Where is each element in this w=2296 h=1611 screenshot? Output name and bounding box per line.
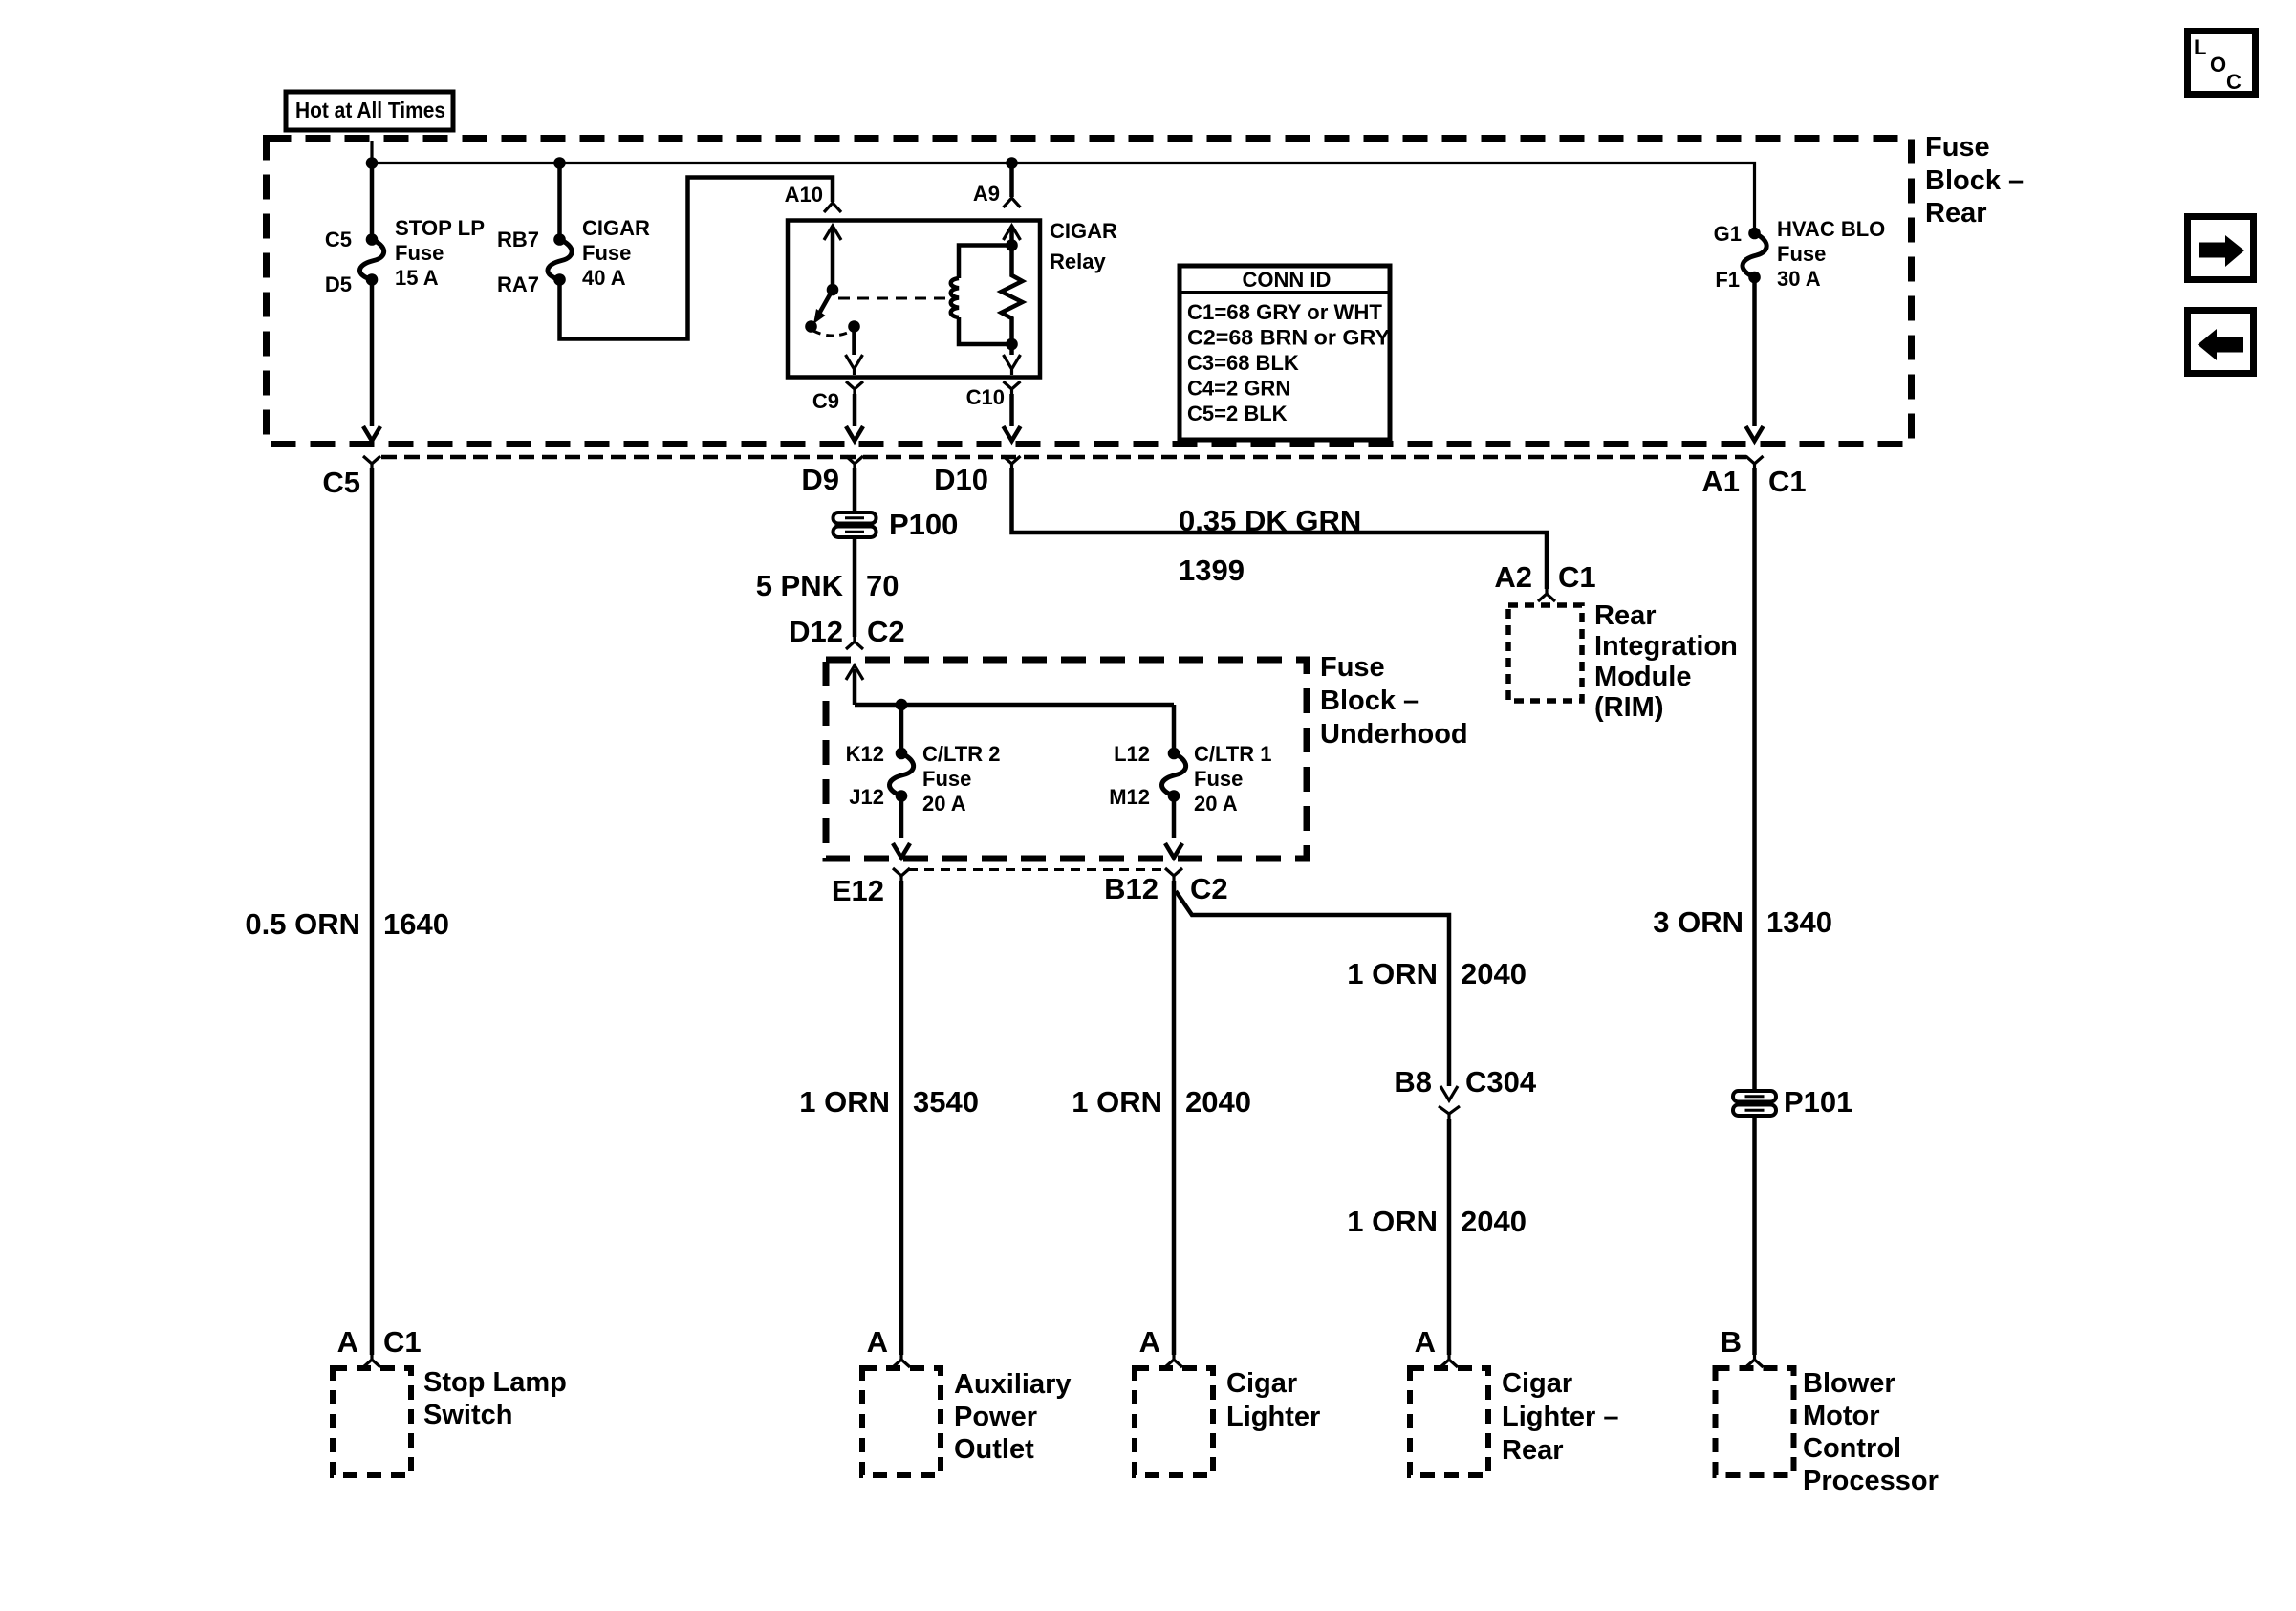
relay switch contact right	[848, 320, 860, 333]
connector C5 at fuse block rear output	[363, 456, 380, 468]
svg-text:Underhood: Underhood	[1320, 719, 1468, 750]
relay CIGAR Relay box	[788, 221, 1040, 378]
svg-text:C1: C1	[1558, 560, 1596, 594]
relay coil winding	[959, 246, 1012, 279]
relay output wire to C10	[1009, 344, 1014, 355]
svg-text:2040: 2040	[1461, 1205, 1527, 1238]
fuse HVAC BLO 30A	[1714, 217, 1886, 441]
svg-text:C10: C10	[966, 385, 1005, 409]
svg-text:C5: C5	[322, 466, 360, 499]
svg-text:1 ORN: 1 ORN	[799, 1085, 890, 1119]
svg-text:C5=2 BLK: C5=2 BLK	[1187, 402, 1288, 425]
svg-text:P100: P100	[889, 508, 958, 541]
svg-text:Lighter –: Lighter –	[1502, 1402, 1618, 1432]
svg-text:Stop Lamp: Stop Lamp	[423, 1367, 567, 1398]
wire: 1 ORN 3540 to auxiliary power outlet	[899, 881, 904, 1355]
node: junction at C/LTR 2 fuse	[896, 699, 908, 711]
svg-text:Fuse: Fuse	[1777, 242, 1826, 266]
svg-text:5 PNK: 5 PNK	[756, 569, 844, 602]
connector E12	[893, 868, 910, 881]
svg-text:1399: 1399	[1179, 554, 1245, 587]
svg-text:A2: A2	[1494, 560, 1532, 594]
svg-text:RA7: RA7	[497, 272, 539, 296]
svg-text:Control: Control	[1803, 1433, 1901, 1464]
svg-text:RB7: RB7	[497, 228, 539, 251]
svg-text:K12: K12	[846, 742, 884, 766]
component: Cigar Lighter - Rear	[1410, 1325, 1618, 1475]
svg-text:Lighter: Lighter	[1226, 1402, 1320, 1432]
svg-text:C1=68 GRY or WHT: C1=68 GRY or WHT	[1187, 300, 1383, 324]
svg-text:2040: 2040	[1461, 957, 1527, 991]
svg-text:40 A: 40 A	[582, 266, 626, 290]
svg-text:C/LTR 2: C/LTR 2	[922, 742, 1000, 766]
svg-text:Cigar: Cigar	[1226, 1368, 1297, 1399]
relay actuation dashed link	[838, 297, 951, 300]
wire: cigar fuse to relay terminal A10	[560, 178, 834, 339]
svg-text:1 ORN: 1 ORN	[1072, 1085, 1162, 1119]
CONN ID table	[1180, 266, 1390, 440]
fuse C/LTR 2 20A	[846, 705, 1001, 858]
svg-text:C2=68 BRN or GRY: C2=68 BRN or GRY	[1187, 326, 1390, 350]
svg-text:Switch: Switch	[423, 1400, 512, 1430]
svg-text:F1: F1	[1715, 268, 1740, 292]
svg-text:C5: C5	[325, 228, 352, 251]
label: Fuse Block - Underhood	[1320, 652, 1468, 750]
svg-text:30 A: 30 A	[1777, 267, 1821, 291]
svg-text:3 ORN: 3 ORN	[1653, 905, 1744, 939]
svg-text:Processor: Processor	[1803, 1466, 1939, 1496]
interface dashed line below fuse block rear	[381, 455, 1746, 460]
fuse block rear dashed border	[267, 139, 1912, 445]
svg-text:B12: B12	[1104, 872, 1159, 905]
relay switch pivot	[827, 284, 839, 296]
wire C10 to fuse block edge	[1009, 394, 1014, 426]
svg-text:A9: A9	[973, 182, 1000, 206]
connector A2 / C1 male terminal	[1538, 589, 1555, 601]
svg-text:Power: Power	[954, 1402, 1037, 1432]
svg-text:70: 70	[866, 569, 899, 602]
svg-text:Relay: Relay	[1050, 250, 1106, 273]
svg-text:3540: 3540	[913, 1085, 979, 1119]
svg-text:Fuse: Fuse	[395, 241, 444, 265]
label: Hot at All Times box	[286, 92, 453, 130]
svg-text:C1: C1	[1768, 465, 1807, 498]
svg-text:Fuse: Fuse	[922, 767, 971, 791]
relay internal: A9 pin entering	[1004, 226, 1021, 240]
svg-text:C1: C1	[383, 1325, 422, 1359]
svg-text:M12: M12	[1109, 785, 1150, 809]
component: Cigar Lighter	[1135, 1325, 1320, 1475]
svg-text:O: O	[2210, 53, 2226, 76]
svg-text:1640: 1640	[383, 907, 449, 941]
svg-text:C9: C9	[812, 389, 839, 413]
wire C9 to fuse block edge	[853, 394, 857, 426]
svg-text:STOP LP: STOP LP	[395, 216, 485, 240]
svg-text:Block –: Block –	[1925, 165, 2024, 196]
svg-text:Rear: Rear	[1502, 1435, 1564, 1466]
connector C9 female terminal below relay	[846, 381, 863, 394]
svg-text:C304: C304	[1465, 1065, 1537, 1099]
svg-text:C: C	[2226, 70, 2242, 94]
svg-text:D10: D10	[934, 463, 988, 496]
component: Blower Motor Control Processor	[1716, 1325, 1939, 1496]
relay output wire to C9	[852, 327, 856, 356]
relay switch dashed throw arc	[813, 331, 852, 336]
svg-text:D12: D12	[789, 615, 843, 648]
svg-text:20 A: 20 A	[922, 792, 966, 816]
svg-text:(RIM): (RIM)	[1594, 692, 1663, 723]
grommet P101	[1733, 1085, 1852, 1119]
svg-text:Cigar: Cigar	[1502, 1368, 1572, 1399]
fuse CIGAR 40A	[497, 163, 650, 297]
svg-text:Hot at All Times: Hot at All Times	[295, 98, 445, 122]
svg-text:Fuse: Fuse	[1925, 132, 1990, 163]
svg-text:1 ORN: 1 ORN	[1347, 957, 1438, 991]
node: coil branch top	[1006, 239, 1018, 251]
svg-text:1 ORN: 1 ORN	[1347, 1205, 1438, 1238]
rear integration module dashed box	[1508, 605, 1582, 701]
node: coil branch bottom	[1006, 338, 1018, 351]
svg-text:D5: D5	[325, 272, 352, 296]
grommet P100	[834, 508, 959, 541]
svg-text:15 A: 15 A	[395, 266, 439, 290]
wire: 3 ORN 1340 to blower motor control processor	[1752, 468, 1757, 1355]
icon: LOC locator box	[2188, 32, 2256, 95]
interface dashed line below fuse block underhood	[908, 868, 1164, 871]
relay resistor	[1002, 246, 1023, 345]
wire: 5 PNK 70 to underhood fuse block	[853, 537, 857, 637]
connector D9	[846, 456, 863, 468]
svg-text:0.5 ORN: 0.5 ORN	[245, 907, 360, 941]
node: bus junction at cigar fuse	[553, 157, 566, 169]
fuse STOP LP 15A	[325, 163, 485, 442]
svg-text:A: A	[1415, 1325, 1436, 1359]
svg-text:Rear: Rear	[1925, 198, 1987, 229]
wire: 0.5 ORN 1640 to stop lamp switch	[370, 468, 375, 1355]
connector B12 / C2	[1165, 868, 1182, 881]
svg-text:A: A	[867, 1325, 888, 1359]
svg-text:A10: A10	[785, 183, 823, 207]
label: Rear Integration Module (RIM)	[1594, 600, 1738, 723]
svg-text:B: B	[1721, 1325, 1742, 1359]
wire: bus to relay terminal A9	[1009, 163, 1014, 198]
node: bus junction at cigar relay A9	[1006, 157, 1018, 169]
svg-text:20 A: 20 A	[1194, 792, 1238, 816]
svg-text:C2: C2	[867, 615, 905, 648]
component: Auxiliary Power Outlet	[862, 1325, 1072, 1475]
wire: branch from B12 to cigar lighter rear	[1176, 891, 1449, 1086]
svg-text:Module: Module	[1594, 662, 1692, 692]
fuse block underhood dashed border	[826, 660, 1307, 859]
svg-text:1340: 1340	[1766, 905, 1832, 939]
wire: underhood feed to both fuses	[855, 703, 1174, 708]
connector A9 female terminal	[1004, 198, 1021, 207]
svg-text:P101: P101	[1784, 1085, 1852, 1119]
underhood entry pin from D12	[846, 665, 863, 680]
svg-text:D9: D9	[801, 463, 839, 496]
connector D10	[1004, 456, 1021, 468]
relay internal: A10 pin entering	[824, 226, 841, 240]
svg-text:E12: E12	[832, 874, 884, 907]
svg-text:L12: L12	[1114, 742, 1150, 766]
icon: next page arrow box	[2188, 217, 2254, 280]
svg-text:J12: J12	[849, 785, 884, 809]
svg-text:Motor: Motor	[1803, 1401, 1880, 1431]
relay switch contact left	[805, 320, 817, 333]
svg-text:Outlet: Outlet	[954, 1434, 1034, 1465]
wire: D9 to P100	[853, 468, 857, 512]
component: Stop Lamp Switch	[333, 1325, 567, 1475]
svg-text:C3=68 BLK: C3=68 BLK	[1187, 351, 1299, 375]
svg-text:CONN ID: CONN ID	[1243, 268, 1332, 292]
wire: 1 ORN 2040 C304 to cigar lighter rear	[1447, 1119, 1452, 1355]
connector D12 / C2 male terminal	[846, 637, 863, 649]
svg-text:Fuse: Fuse	[1194, 767, 1243, 791]
svg-text:Auxiliary: Auxiliary	[954, 1369, 1072, 1400]
svg-text:Block –: Block –	[1320, 686, 1419, 716]
svg-text:L: L	[2194, 35, 2206, 59]
svg-text:C2: C2	[1190, 872, 1228, 905]
svg-text:A1: A1	[1701, 465, 1740, 498]
svg-text:G1: G1	[1714, 222, 1742, 246]
svg-text:CIGAR: CIGAR	[1050, 219, 1117, 243]
svg-text:Integration: Integration	[1594, 631, 1738, 662]
fuse C/LTR 1 20A	[1109, 705, 1271, 858]
wire: 0.35 DK GRN 1399 to rear integration module	[1012, 468, 1548, 589]
icon: previous page arrow box	[2188, 311, 2254, 374]
svg-text:HVAC BLO: HVAC BLO	[1777, 217, 1885, 241]
svg-text:CIGAR: CIGAR	[582, 216, 650, 240]
svg-text:0.35 DK GRN: 0.35 DK GRN	[1179, 504, 1361, 537]
connector C10 female terminal below relay	[1004, 381, 1021, 394]
svg-text:Rear: Rear	[1594, 600, 1657, 631]
wire: feed bus from stop lp fuse to hvac blo fuse	[372, 141, 1755, 233]
svg-text:C/LTR 1: C/LTR 1	[1194, 742, 1271, 766]
label: Fuse Block - Rear	[1925, 132, 2024, 229]
svg-text:B8: B8	[1394, 1065, 1432, 1099]
node: bus junction at stop lp fuse	[366, 157, 379, 169]
connector A1 / C1	[1746, 456, 1764, 468]
svg-text:Blower: Blower	[1803, 1368, 1895, 1399]
svg-text:Fuse: Fuse	[1320, 652, 1385, 683]
svg-text:A: A	[1139, 1325, 1160, 1359]
svg-text:Fuse: Fuse	[582, 241, 631, 265]
svg-text:2040: 2040	[1185, 1085, 1251, 1119]
connector B8 / C304 in-line	[1440, 1086, 1458, 1100]
svg-text:A: A	[337, 1325, 358, 1359]
wire: 1 ORN 2040 to cigar lighter	[1172, 881, 1177, 1355]
svg-text:C4=2 GRN: C4=2 GRN	[1187, 377, 1290, 401]
connector A10 female terminal	[824, 202, 841, 212]
relay switch blade arrow	[820, 290, 834, 313]
